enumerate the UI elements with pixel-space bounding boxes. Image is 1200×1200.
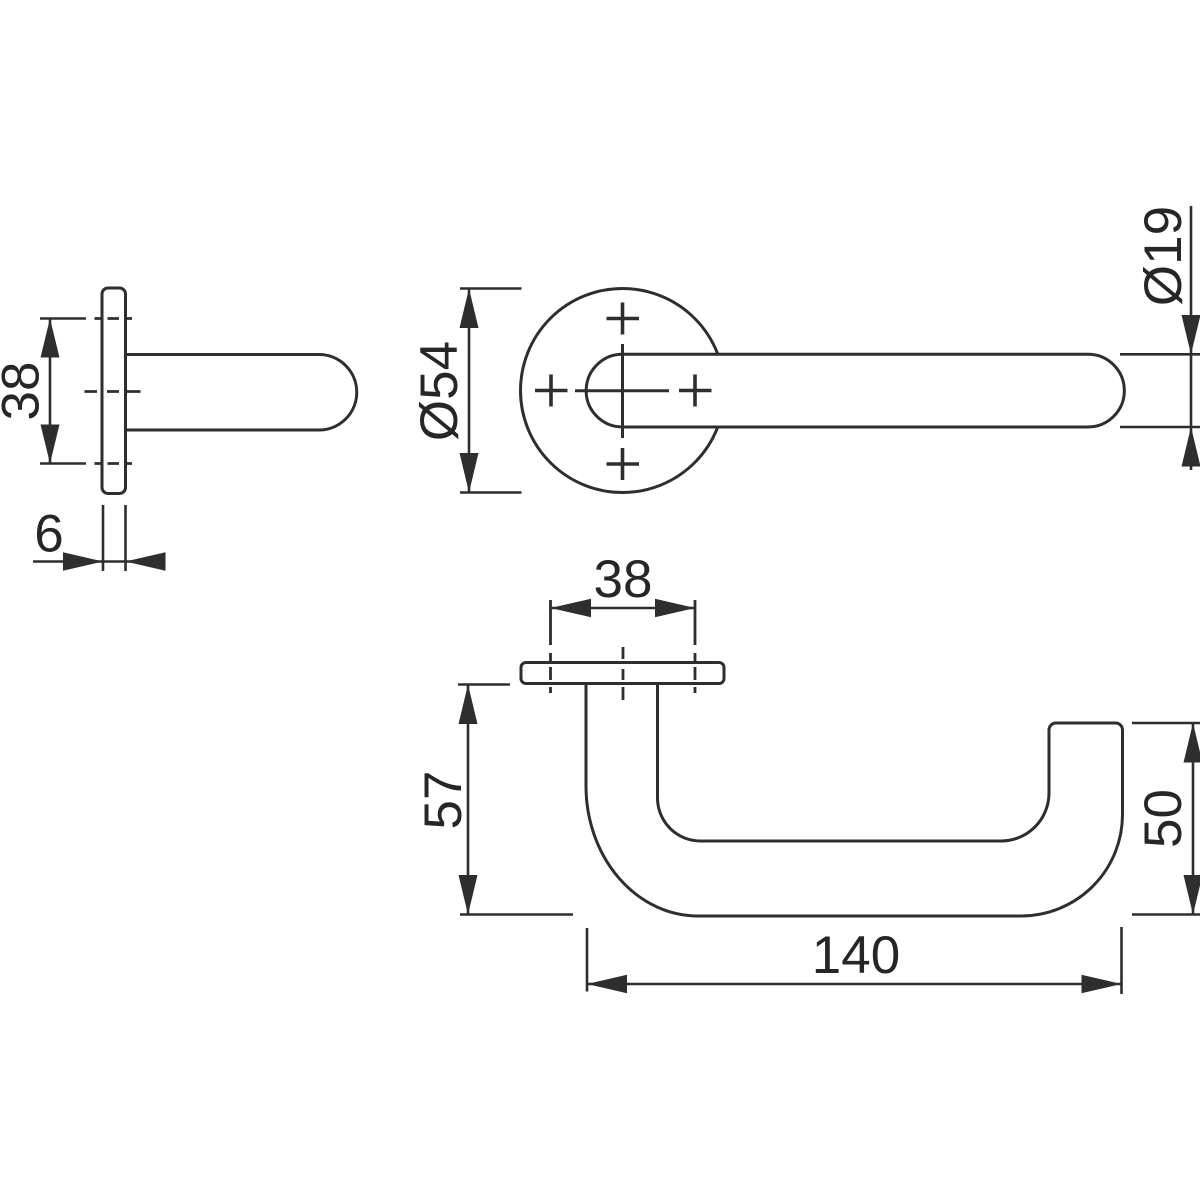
svg-text:50: 50 — [1134, 789, 1193, 848]
svg-text:140: 140 — [812, 926, 900, 985]
svg-text:57: 57 — [414, 771, 473, 830]
svg-text:38: 38 — [0, 362, 51, 421]
svg-text:6: 6 — [34, 505, 63, 564]
svg-text:38: 38 — [594, 550, 653, 609]
svg-text:Ø54: Ø54 — [410, 341, 469, 441]
svg-text:Ø19: Ø19 — [1134, 206, 1193, 306]
